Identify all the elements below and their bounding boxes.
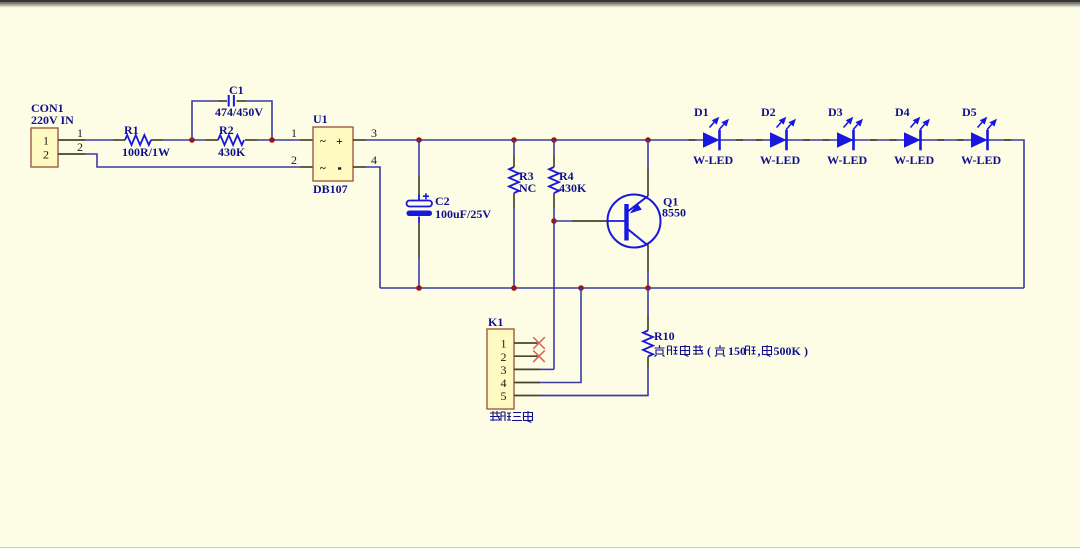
bridge rectifier U1	[313, 127, 353, 181]
resistor R4	[553, 140, 555, 155]
svg-text:W-LED: W-LED	[894, 153, 935, 167]
svg-text:K1: K1	[488, 315, 503, 329]
node R3 top	[511, 137, 517, 143]
svg-text:1: 1	[77, 126, 83, 140]
K1 pin 5 stub	[514, 395, 540, 397]
svg-text:D3: D3	[828, 105, 843, 119]
node junction right of R2	[269, 137, 275, 143]
K1 pin 3 stub	[514, 368, 540, 370]
Q1 collector pin	[647, 245, 649, 272]
node C2 bottom	[416, 285, 422, 291]
svg-text:~: ~	[320, 163, 326, 175]
svg-text:,: ,	[758, 344, 761, 358]
capacitor C2	[418, 140, 420, 176]
node R3 bottom	[511, 285, 517, 291]
svg-text:U1: U1	[313, 112, 328, 126]
K1 pin 2 stub	[514, 355, 540, 357]
no-connect X pin2	[533, 350, 545, 362]
svg-text:150: 150	[728, 344, 746, 358]
node Q1 base tap	[551, 218, 557, 224]
LED D2	[756, 117, 810, 151]
svg-text:1: 1	[43, 134, 49, 148]
no-connect X pin1	[533, 337, 545, 349]
label photoresistor chinese	[655, 344, 809, 358]
LED D5	[957, 117, 1011, 151]
label switch chinese	[490, 411, 533, 423]
node K1 pin4 rail	[578, 285, 584, 291]
photoresistor R10	[647, 288, 649, 315]
svg-text:8550: 8550	[662, 206, 686, 220]
svg-text:(: (	[707, 344, 711, 358]
svg-text:D1: D1	[694, 105, 709, 119]
svg-text:4: 4	[501, 376, 507, 390]
svg-text:R1: R1	[124, 123, 139, 137]
svg-text:W-LED: W-LED	[693, 153, 734, 167]
node junction left of R2	[189, 137, 195, 143]
svg-text:100R/1W: 100R/1W	[122, 145, 170, 159]
svg-text:DB107: DB107	[313, 182, 348, 196]
svg-text:C1: C1	[229, 83, 244, 97]
svg-text:2: 2	[291, 153, 297, 167]
svg-text:D4: D4	[895, 105, 910, 119]
svg-text:W-LED: W-LED	[760, 153, 801, 167]
K1 pin 4 stub	[514, 382, 540, 384]
svg-text:430K: 430K	[559, 181, 587, 195]
wire U1 pin4 down left rail	[366, 167, 380, 288]
wire CON1 pin1 to R1	[85, 139, 113, 141]
svg-text:2: 2	[77, 140, 83, 154]
wire R10 to K1 pin5	[540, 369, 648, 396]
transistor Q1	[608, 195, 661, 248]
LED D3	[823, 117, 877, 151]
svg-text:C2: C2	[435, 194, 450, 208]
wire K1 pin4	[540, 288, 581, 383]
connector K1	[487, 329, 514, 409]
U1 pin 2 stub	[300, 166, 313, 168]
resistor R3	[513, 140, 515, 155]
U1 pin 4 stub	[353, 166, 366, 168]
capacitor C1	[229, 95, 234, 107]
K1 pin 1 stub	[514, 342, 540, 344]
node Q1 collector rail	[645, 285, 651, 291]
svg-text:4: 4	[371, 153, 377, 167]
svg-text:W-LED: W-LED	[827, 153, 868, 167]
capacitor C1 branch wire	[192, 101, 218, 140]
svg-text:~: ~	[320, 136, 326, 148]
node C2 top	[416, 137, 422, 143]
node R4 top	[551, 137, 557, 143]
svg-text:D5: D5	[962, 105, 977, 119]
svg-text:NC: NC	[519, 181, 536, 195]
LED D1	[689, 117, 743, 151]
bottom rail wire	[380, 287, 1024, 289]
wire R4 down to K1 pin3	[553, 207, 555, 369]
wire K1 pin5	[540, 395, 648, 397]
wire R1 to R2	[163, 139, 206, 141]
wire base	[554, 220, 572, 222]
svg-text:R2: R2	[219, 123, 234, 137]
resistor R2	[206, 139, 218, 141]
svg-text:W-LED: W-LED	[961, 153, 1002, 167]
U1 pin 3 stub	[353, 139, 366, 141]
connector CON1	[31, 128, 58, 167]
CON1 pin 1 stub	[58, 139, 85, 141]
svg-text:500K: 500K	[774, 344, 802, 358]
svg-text:474/450V: 474/450V	[215, 105, 263, 119]
wire CON1 pin2 to U1 pin2	[85, 154, 300, 167]
LED D4	[890, 117, 944, 151]
wire R2 to U1 pin1	[257, 139, 300, 141]
resistor R1	[113, 139, 125, 141]
svg-text:+: +	[336, 134, 343, 148]
CON1 pin 2 stub	[58, 153, 85, 155]
svg-text:2: 2	[501, 350, 507, 364]
svg-text:1: 1	[291, 126, 297, 140]
svg-text:430K: 430K	[218, 145, 246, 159]
bottom faint edge	[0, 547, 1080, 548]
svg-text:3: 3	[371, 126, 377, 140]
svg-text:R10: R10	[654, 329, 675, 343]
svg-text:5: 5	[501, 389, 507, 403]
Q1 emitter pin	[647, 167, 649, 196]
node Q1 emitter top	[645, 137, 651, 143]
U1 symbol -	[338, 167, 341, 169]
capacitor C1 pins	[218, 100, 227, 102]
svg-text:100uF/25V: 100uF/25V	[435, 207, 491, 221]
U1 pin 1 stub	[300, 139, 313, 141]
svg-text:1: 1	[501, 337, 507, 351]
svg-text:D2: D2	[761, 105, 776, 119]
svg-text:2: 2	[43, 148, 49, 162]
svg-text:220V IN: 220V IN	[31, 113, 74, 127]
wire top rail U1 pin3 to LEDs to right edge	[366, 140, 1024, 288]
wire K1 pin3	[540, 368, 554, 370]
svg-text:3: 3	[501, 363, 507, 377]
svg-text:): )	[804, 344, 808, 358]
